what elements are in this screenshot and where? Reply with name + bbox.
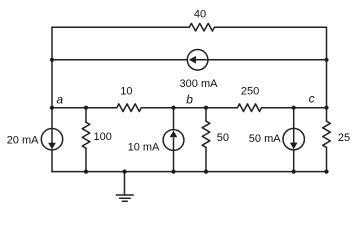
resistor 250 zigzag — [238, 104, 262, 112]
ground bar 3 — [122, 200, 127, 202]
junction R100 bottom — [84, 170, 88, 174]
resistor 40 zigzag — [189, 23, 214, 31]
junction node b — [171, 106, 175, 110]
svg-text:c: c — [309, 92, 315, 106]
arrow 300mA shaft — [195, 59, 207, 61]
wire R100 bottom lead — [85, 148, 87, 171]
junction node left row2 — [50, 58, 54, 62]
wire second row right of source — [208, 59, 327, 61]
wire second row left of source — [52, 59, 187, 61]
junction ground tap — [122, 170, 126, 174]
wire R50 top lead — [205, 108, 207, 121]
resistor 25 zigzag — [323, 121, 331, 147]
wire 10mA top lead — [173, 108, 175, 130]
svg-text:250: 250 — [241, 85, 259, 97]
svg-text:b: b — [186, 93, 193, 107]
wire left vertical lower — [51, 150, 53, 172]
arrow 10mA shaft — [173, 138, 175, 150]
svg-text:50 mA: 50 mA — [249, 133, 281, 145]
junction R100 top — [84, 106, 88, 110]
wire top right segment — [215, 26, 327, 28]
svg-text:300 mA: 300 mA — [180, 78, 219, 90]
arrowhead 20mA — [48, 143, 56, 150]
wire left vertical upper — [51, 27, 53, 128]
ground stub — [124, 172, 126, 195]
svg-text:100: 100 — [94, 131, 112, 143]
wire R100 top lead — [85, 108, 87, 123]
wire middle row a to R10 — [52, 107, 117, 109]
junction R50 top — [204, 106, 208, 110]
arrowhead 10mA — [170, 131, 178, 138]
wire right vertical lower — [326, 148, 328, 172]
junction R50 bottom — [204, 170, 208, 174]
junction node a — [50, 106, 54, 110]
resistor 50 zigzag — [202, 121, 210, 147]
wire middle row R10 to R250 — [141, 107, 237, 109]
arrowhead 50mA — [290, 143, 298, 150]
wire 50mA bottom lead — [293, 150, 295, 172]
wire right vertical upper — [326, 27, 328, 121]
current source 20mA circle — [41, 129, 62, 150]
ground bar 1 — [116, 194, 133, 196]
arrowhead 300mA — [189, 56, 196, 64]
svg-text:10 mA: 10 mA — [128, 142, 160, 154]
svg-text:40: 40 — [194, 8, 206, 20]
resistor 10 zigzag — [117, 104, 141, 112]
svg-text:20 mA: 20 mA — [7, 134, 39, 146]
arrow 20mA shaft — [51, 130, 53, 144]
svg-text:50: 50 — [217, 132, 229, 144]
arrow 50mA shaft — [293, 129, 295, 143]
junction 50mA bottom — [292, 170, 296, 174]
wire top left segment — [52, 26, 189, 28]
wire middle row R250 to c — [262, 107, 327, 109]
wire bottom row — [52, 171, 327, 173]
junction 10mA bottom — [171, 170, 175, 174]
svg-text:10: 10 — [120, 85, 132, 97]
junction 50mA top — [292, 106, 296, 110]
ground bar 2 — [120, 197, 131, 199]
svg-text:a: a — [57, 92, 64, 106]
wire 10mA bottom lead — [173, 150, 175, 171]
junction node c — [324, 106, 328, 110]
current source 10mA circle — [163, 130, 184, 151]
current source U300 circle — [187, 50, 208, 71]
junction node right row2 — [324, 58, 328, 62]
current source 50mA circle — [283, 128, 304, 149]
svg-text:25: 25 — [338, 132, 350, 144]
resistor 100 zigzag — [82, 122, 90, 148]
wire R50 bottom lead — [205, 147, 207, 171]
wire 50mA top lead — [293, 108, 295, 129]
junction bottom right corner — [324, 170, 328, 174]
